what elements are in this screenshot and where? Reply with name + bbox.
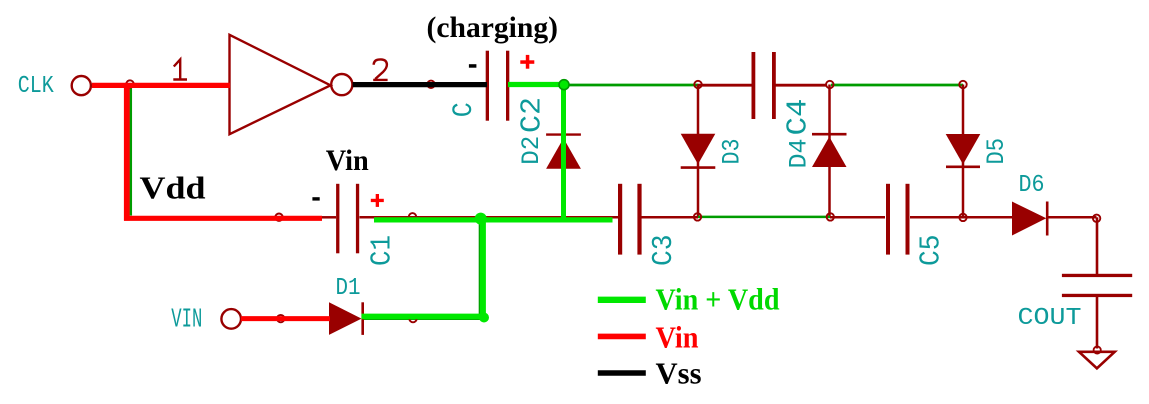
wire net row1 thin green C2 to D3 — [509, 84, 698, 87]
node green dot C1 out — [475, 213, 487, 225]
legend text Vin — [656, 319, 699, 354]
wire vertical C1 node to D1 node (under green overlay) — [479, 218, 481, 318]
label C3 — [647, 235, 680, 267]
junction output node — [1093, 215, 1100, 222]
svg-text:CLK: CLK — [18, 73, 54, 100]
label D2 — [517, 136, 546, 165]
label CLK — [18, 73, 54, 100]
capacitor C5 — [886, 184, 910, 255]
junction D4 top — [826, 81, 833, 88]
junction D5 top — [959, 81, 966, 88]
svg-text:D3: D3 — [718, 139, 747, 165]
label C2 — [516, 97, 549, 133]
inverter U1 triangle — [230, 35, 331, 134]
diode D3 — [681, 134, 716, 168]
wire D5 stem — [962, 85, 965, 218]
junction C1 out — [409, 213, 416, 220]
svg-text:Vin: Vin — [326, 144, 369, 177]
label C5 — [915, 235, 948, 267]
svg-text:D5: D5 — [982, 138, 1011, 165]
wire highlight red VIN to D1 — [241, 316, 330, 321]
wire highlight red Vdd vertical — [124, 83, 130, 221]
junction on VIN wire — [277, 315, 284, 322]
label D3 — [718, 139, 747, 165]
diode D5 — [946, 134, 981, 167]
label C value — [449, 102, 480, 117]
label D5 — [982, 138, 1011, 165]
wire D3 stem — [697, 85, 700, 218]
wire row2 C3 to D3 — [641, 216, 698, 219]
wire Vdd vertical green residue — [130, 87, 133, 216]
junction CLK T — [126, 80, 133, 87]
junction D5 bottom — [959, 214, 966, 221]
wire row2 D6 to output node — [1047, 216, 1097, 219]
pin 1 — [173, 60, 187, 80]
svg-text:C4: C4 — [782, 99, 815, 136]
inverter output bubble — [331, 74, 352, 95]
capacitor C3 — [618, 184, 642, 255]
wire highlight black inverter out to C2 — [353, 82, 487, 87]
svg-text:C: C — [449, 102, 480, 117]
svg-text:COUT: COUT — [1018, 305, 1082, 332]
junction node C2 out — [560, 81, 567, 88]
wire highlight green D1 out horizontal — [362, 314, 487, 320]
svg-text:C2: C2 — [516, 97, 549, 133]
junction D4 bottom — [827, 213, 834, 220]
wire D2 stem — [562, 85, 565, 218]
wire highlight red Vdd horizontal to C1 — [124, 216, 322, 221]
diode D4 — [812, 134, 847, 167]
ground — [1079, 346, 1115, 368]
svg-text:D6: D6 — [1019, 172, 1045, 199]
label C1 — [366, 235, 399, 266]
svg-text:C5: C5 — [915, 235, 948, 267]
wire highlight green row2 horizontal — [374, 217, 613, 222]
text Vin at C1 — [326, 144, 369, 177]
svg-text:VIN: VIN — [171, 305, 202, 335]
wire CLK input to inverter (under red overlay) — [92, 83, 229, 86]
capacitor C1 — [336, 184, 359, 254]
label C4 — [782, 99, 815, 136]
wire row2 D3 to D4 green — [698, 216, 830, 219]
label VIN — [171, 305, 202, 335]
terminal circle VIN — [221, 309, 241, 329]
svg-text:D4: D4 — [785, 139, 814, 169]
wire row1 D3 to C4 — [698, 84, 752, 87]
terminal circle CLK — [72, 76, 91, 95]
wire highlight green C2 out — [508, 82, 567, 87]
svg-text:C1: C1 — [366, 235, 399, 266]
svg-text:D2: D2 — [517, 136, 546, 165]
junction D3 top — [694, 81, 701, 88]
wire D4 stem — [828, 85, 831, 218]
C1 minus — [312, 197, 319, 200]
wire highlight red CLK to inverter — [92, 83, 230, 88]
wire row2 D4 to C5 — [830, 216, 885, 219]
svg-text:Vin + Vdd: Vin + Vdd — [656, 282, 780, 317]
wire highlight green D2 vertical — [561, 82, 566, 220]
legend black line — [598, 370, 646, 376]
junction on Vdd wire — [275, 214, 282, 221]
wire highlight green vertical C1 node to D1 node — [480, 218, 486, 317]
svg-text:D1: D1 — [336, 275, 361, 302]
C1 plus — [371, 194, 384, 207]
svg-text:C3: C3 — [647, 235, 680, 267]
C2 plus — [520, 55, 534, 69]
C2 minus — [469, 64, 477, 68]
text (charging) — [427, 11, 559, 44]
svg-text:Vin: Vin — [656, 319, 699, 354]
svg-text:(charging): (charging) — [427, 11, 559, 44]
node green dot D1 corner — [479, 313, 489, 323]
text Vdd — [140, 169, 206, 205]
capacitor C4 — [752, 52, 776, 119]
wire output node to COUT — [1096, 217, 1099, 274]
capacitor C2 — [486, 51, 510, 121]
svg-text:Vdd: Vdd — [140, 169, 206, 205]
legend text Vss — [656, 356, 702, 391]
wire VIN to D1 (under red overlay) — [240, 317, 329, 320]
wire D1 to green corner (under green overlay) — [363, 318, 484, 321]
junction D3 bottom — [694, 213, 701, 220]
pin 2 — [373, 59, 387, 80]
label D6 — [1019, 172, 1045, 199]
wire row2 C1 to C3 — [320, 216, 618, 219]
wire COUT to ground — [1096, 297, 1099, 349]
wire row1 C4 to D4 — [775, 84, 828, 87]
diode D6 — [1012, 202, 1047, 236]
label D1 — [336, 275, 361, 302]
label D4 — [785, 139, 814, 169]
legend red line — [598, 334, 646, 340]
svg-text:Vss: Vss — [656, 356, 702, 391]
wire net row1 thin green D4 to D5 — [831, 84, 963, 87]
legend text Vin + Vdd — [656, 282, 780, 317]
node green dot C2 out — [559, 80, 569, 90]
capacitor COUT — [1062, 274, 1132, 297]
junction D1 out — [409, 315, 416, 322]
junction on inverter output wire — [427, 81, 434, 88]
label COUT — [1018, 305, 1082, 332]
diode D2 — [546, 135, 581, 169]
diode D1 — [329, 302, 363, 335]
legend green line — [598, 297, 646, 303]
wire row2 C5 to D6 — [910, 216, 1012, 219]
